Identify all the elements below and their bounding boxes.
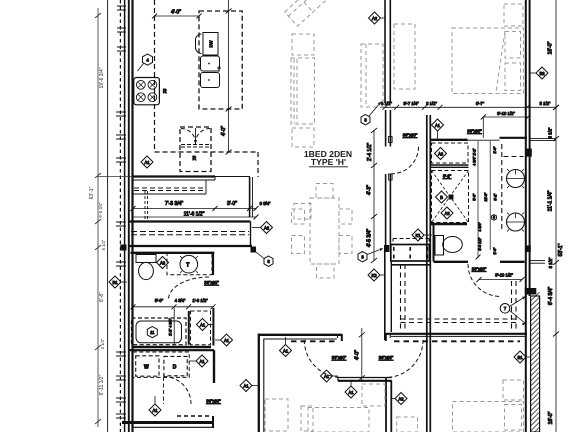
closet bottom wall: [391, 264, 430, 266]
svg-text:36"x60": 36"x60": [379, 355, 394, 360]
console bookcase: [291, 58, 315, 124]
cabinet dashed right edge: [257, 152, 259, 177]
LEFT DIMENSION STRING: [89, 8, 133, 427]
svg-text:A1: A1: [200, 322, 206, 327]
basin 1: [507, 170, 525, 188]
right door jamb: [385, 333, 387, 341]
hex 3 entry: [361, 115, 370, 125]
bed3 bed: [453, 402, 524, 432]
svg-text:16'-0": 16'-0": [548, 411, 554, 424]
ensuite toilet bowl: [443, 237, 463, 253]
svg-text:2'-2" 4 3/4": 2'-2" 4 3/4": [169, 318, 173, 336]
top dim row: [380, 106, 556, 108]
hex 4 kitchen: [143, 54, 153, 65]
svg-text:W: W: [144, 365, 149, 371]
small rects lower: [294, 204, 311, 220]
svg-text:3'-2": 3'-2": [443, 174, 452, 179]
laundry right wall: [213, 350, 215, 383]
svg-text:A1: A1: [144, 160, 150, 165]
svg-text:4'-0": 4'-0": [171, 10, 181, 16]
range (stove): [134, 78, 160, 105]
jamb block mid right wall: [525, 246, 531, 253]
bulkhead dashed L left: [400, 264, 402, 332]
CENTER WALLS / DOORS: [258, 128, 527, 432]
shower dashed box: [432, 171, 469, 223]
svg-text:A1: A1: [243, 383, 249, 388]
diamond B1 right lower: [514, 351, 526, 363]
bathtub dashed surround: [132, 318, 187, 345]
svg-text:4'-3": 4'-3": [367, 185, 373, 195]
svg-text:A1: A1: [283, 348, 289, 353]
island vertical dim line: [228, 0, 230, 152]
svg-text:6'-4 3/4": 6'-4 3/4": [548, 287, 554, 306]
dryer box: [164, 356, 187, 375]
bed2 nightstand: [504, 4, 523, 26]
diamond A3 powder: [157, 257, 169, 269]
RIGHT WALL + DIMS: [525, 0, 564, 432]
door jamb bumps: [389, 137, 393, 143]
circle 7: [500, 304, 510, 314]
svg-text:R: R: [163, 89, 167, 95]
dim line 2: [133, 216, 256, 218]
basin 2: [507, 213, 525, 231]
svg-text:36"x60": 36"x60": [204, 280, 219, 285]
svg-text:DW: DW: [209, 40, 214, 47]
svg-text:11'-6 1/2": 11'-6 1/2": [184, 212, 205, 218]
bed2 dresser: [394, 24, 415, 89]
dim line kitchen bottom: [133, 207, 256, 209]
svg-text:3 1/2": 3 1/2": [548, 257, 553, 268]
dining chairs: [292, 209, 305, 224]
wall inner thick line: [131, 0, 133, 432]
diamond B1 left: [109, 276, 121, 288]
linen cabinet box: [391, 245, 430, 262]
jamb black block: [384, 245, 390, 252]
TV console along entry wall: [361, 44, 383, 107]
armchair square: [292, 34, 314, 55]
left door jamb: [341, 334, 343, 341]
ensuite door arc dashed: [468, 264, 501, 297]
hall dim line vertical: [373, 216, 375, 261]
hex 5 marker: [492, 215, 497, 221]
wall face line (balcony edge): [107, 0, 109, 432]
svg-text:1'-6": 1'-6": [493, 146, 497, 154]
bathtub inner: [136, 321, 182, 343]
bed2 door arc: [392, 147, 419, 174]
diamond K2: [368, 269, 380, 281]
den2 desk: [308, 408, 369, 432]
svg-text:A1: A1: [224, 338, 230, 343]
dimension line: [97, 8, 99, 427]
svg-text:19'-6 3/4": 19'-6 3/4": [99, 67, 105, 88]
svg-text:A1: A1: [324, 374, 330, 379]
svg-text:A2: A2: [372, 16, 378, 21]
left door arc dashed: [304, 340, 341, 378]
svg-text:A1: A1: [348, 390, 354, 395]
diamond B shower: [436, 191, 448, 203]
closet top wall: [430, 139, 468, 141]
hall counter top edge: [128, 220, 251, 222]
ensuite top door dim: [483, 116, 528, 118]
svg-text:36"x60": 36"x60": [472, 266, 487, 271]
toilet bowl: [139, 262, 154, 279]
svg-text:3 1/2": 3 1/2": [548, 127, 553, 138]
ensuite interior dim lines: [477, 141, 479, 258]
svg-text:11: 11: [150, 330, 155, 335]
svg-text:T: T: [186, 263, 189, 269]
diamond A2 top entry: [369, 12, 381, 24]
hex 11 tub: [147, 327, 157, 338]
ensuite toilet tank: [435, 236, 444, 256]
counter front edge: [134, 193, 207, 195]
hex 8: [358, 252, 367, 262]
svg-text:K2: K2: [371, 273, 377, 278]
counter wall below kitchen: [134, 175, 216, 177]
svg-text:4'-0": 4'-0": [355, 350, 361, 360]
window mullion ticks: [116, 6, 126, 418]
svg-text:A1: A1: [199, 359, 205, 364]
toilet room left wall: [433, 224, 435, 262]
fridge double door arcs: [181, 129, 196, 144]
DW door front: [196, 34, 202, 54]
diamond A1 doors left: [321, 370, 333, 382]
svg-text:B: B: [440, 195, 443, 200]
entry wall column upper segment: [384, 0, 386, 103]
vanity dashed: [167, 254, 212, 275]
closet dashed: [432, 143, 469, 163]
diamond A2 bed3: [395, 393, 407, 405]
armchair left mid: [292, 128, 314, 147]
svg-text:36"x60": 36"x60": [206, 399, 221, 404]
BATH/LAUNDRY: [122, 308, 221, 428]
svg-text:B2: B2: [539, 71, 545, 76]
diamond A1 laundry: [196, 355, 208, 367]
closet wall column: [426, 115, 428, 432]
wall stub mid right: [530, 260, 545, 262]
hall left wall upper: [384, 252, 386, 340]
diamond A1 closet top: [432, 119, 444, 131]
diamond A1 den1 top: [280, 345, 292, 357]
sofa rotated top left: [285, 0, 344, 26]
bulkhead dashed vertical right: [511, 281, 513, 331]
svg-text:8'-2": 8'-2": [494, 193, 498, 201]
bath2 right wall: [212, 308, 214, 346]
connector at counter level: [98, 176, 133, 178]
svg-text:4'-0": 4'-0": [221, 126, 227, 136]
FURNITURE (light gray): [265, 0, 524, 432]
diamond B2 right: [536, 67, 548, 79]
svg-text:8'-7": 8'-7": [476, 101, 485, 106]
wall dashes under: [291, 340, 337, 342]
diamond A1 kitchen left: [141, 156, 153, 168]
svg-text:K1: K1: [415, 233, 421, 238]
upper cabinets dashed line vertical: [154, 0, 156, 152]
entry dim line vertical upper: [373, 130, 375, 216]
faucet: [217, 66, 221, 72]
bulkhead dashed horizontal: [401, 318, 517, 320]
main right wall double line: [525, 0, 527, 432]
svg-text:3'-0": 3'-0": [227, 201, 237, 207]
diamond K1: [412, 229, 424, 241]
svg-text:5 1/2": 5 1/2": [540, 101, 551, 106]
RIGHT BLOCK (bedroom2/ensuite): [380, 0, 559, 432]
svg-text:11'-1 1/4": 11'-1 1/4": [548, 190, 554, 211]
diamond A1 den2: [345, 386, 357, 398]
svg-text:6'-11 1/2": 6'-11 1/2": [99, 374, 105, 395]
pantry right vertical: [249, 177, 251, 217]
svg-text:B1: B1: [517, 355, 523, 360]
svg-text:A3: A3: [444, 211, 450, 216]
svg-text:3'-10 1/2": 3'-10 1/2": [495, 273, 513, 278]
svg-text:3 1/2": 3 1/2": [100, 338, 105, 349]
svg-text:5 1/2": 5 1/2": [101, 239, 106, 250]
svg-text:3'-0 1/2": 3'-0 1/2": [478, 237, 482, 251]
door dim line: [479, 279, 522, 281]
right door arc dashed: [386, 340, 423, 378]
svg-text:B1: B1: [112, 280, 118, 285]
svg-text:63'-1": 63'-1": [89, 186, 95, 199]
diamond A1 shower niche: [197, 319, 209, 331]
powder right wall: [212, 253, 214, 275]
dim 4'-0" horizontal: [155, 15, 200, 17]
svg-text:A3: A3: [160, 260, 166, 265]
svg-text:4 3/4": 4 3/4": [478, 222, 482, 232]
diamond A1 bath right: [221, 334, 233, 346]
diamond A3 closet: [435, 148, 447, 160]
svg-text:TYPE 'H': TYPE 'H': [311, 157, 346, 167]
bath2 mid wall: [188, 311, 190, 345]
den2 desk chair: [362, 384, 385, 406]
hall counter bottom edge: [128, 245, 252, 247]
TITLE: [304, 149, 352, 167]
den1 desk: [265, 399, 288, 431]
bed2 door wall lower: [385, 174, 387, 245]
hex 6: [264, 256, 273, 266]
wall stub right of ensuite top wall: [530, 138, 556, 140]
dishwasher DW: [203, 33, 218, 56]
svg-text:A1: A1: [152, 408, 158, 413]
den2 right wall: [385, 378, 387, 432]
shower bottom wall: [430, 223, 467, 225]
bath2 bottom wall: [132, 346, 212, 348]
svg-text:A2: A2: [398, 396, 404, 401]
svg-text:11'-0": 11'-0": [484, 192, 488, 202]
svg-text:1'-9 1/2": 1'-9 1/2": [192, 298, 208, 303]
svg-text:4'-5 3/4": 4'-5 3/4": [367, 229, 373, 248]
svg-text:4 3/4" 2'-2": 4 3/4" 2'-2": [473, 148, 477, 166]
diamond A1 laundry door: [149, 404, 161, 416]
hall counter right edge: [250, 222, 252, 247]
den1/den2 top wall: [258, 334, 342, 336]
den1 left wall: [258, 334, 260, 432]
ensuite door wall right part: [500, 261, 525, 263]
shower niche dashed: [191, 311, 211, 345]
svg-text:36"x60": 36"x60": [467, 129, 482, 134]
svg-text:2'-4 1/2": 2'-4 1/2": [367, 143, 373, 162]
wall stud dashes between thick lines: [119, 0, 121, 432]
svg-text:3'-10 1/2": 3'-10 1/2": [497, 111, 515, 116]
laundry door arc dashed: [164, 377, 192, 405]
svg-text:53'-1": 53'-1": [558, 243, 564, 256]
wall outer thick line: [128, 0, 130, 432]
svg-text:9 3/4": 9 3/4": [260, 201, 271, 206]
refrigerator dashed box: [180, 127, 211, 172]
LEFT EXTERIOR WALL ASSEMBLY: [108, 0, 133, 432]
svg-text:5'-0": 5'-0": [155, 298, 164, 303]
lower counter dashed: [134, 187, 206, 189]
island dashed outline: [199, 11, 242, 109]
right wall segment of door wall: [386, 333, 527, 335]
dashed stub below counter: [144, 191, 146, 221]
svg-text:R: R: [193, 156, 197, 162]
diamond A2 counter: [261, 222, 273, 234]
dining table: [310, 198, 339, 264]
svg-text:A3: A3: [438, 151, 444, 156]
basin scalloped: [180, 255, 198, 273]
svg-text:3 1/2": 3 1/2": [426, 101, 437, 106]
bed2 bed: [452, 28, 524, 94]
den2 top wall (lower): [338, 377, 392, 379]
hatched exterior wall lower right: [531, 292, 540, 432]
center dim line vertical: [361, 328, 363, 381]
washer box: [136, 356, 159, 376]
svg-text:A1: A1: [435, 123, 441, 128]
laundry top wall: [128, 349, 214, 351]
svg-text:8'-8": 8'-8": [99, 292, 105, 302]
HALL COUNTER + POWDER ROOM: [120, 222, 256, 310]
svg-text:5'-0": 5'-0": [473, 193, 477, 201]
closet dashed rod: [393, 238, 429, 240]
powder top wall: [131, 252, 215, 254]
wall junction block: [120, 245, 126, 251]
bottom wall right return: [212, 416, 214, 428]
svg-text:7'-8 3/4": 7'-8 3/4": [165, 201, 184, 207]
powder door arc dashed: [169, 277, 210, 299]
bed2 door wall upper: [385, 110, 387, 147]
svg-text:A2: A2: [264, 225, 270, 230]
KITCHEN: [131, 0, 271, 221]
vanity dashed front: [501, 144, 503, 230]
upper cabinets dashed line horizontal: [155, 151, 259, 153]
MARKERS: [109, 12, 548, 416]
svg-text:6'-5 3/4": 6'-5 3/4": [98, 202, 103, 218]
svg-text:1'-6": 1'-6": [493, 247, 497, 255]
door jamb block: [251, 247, 257, 253]
svg-text:3'-7 1/4": 3'-7 1/4": [403, 101, 419, 106]
right dimension line: [555, 0, 557, 432]
wall stud line: [124, 0, 126, 432]
wall corner cap: [525, 288, 537, 295]
toilet room bottom wall: [434, 261, 469, 263]
bed3 nightstand: [503, 380, 524, 400]
ensuite top wall: [500, 137, 528, 139]
bath2 dim line: [133, 306, 214, 308]
svg-text:D: D: [173, 365, 177, 371]
svg-text:36"x60": 36"x60": [332, 355, 347, 360]
svg-text:16'-0": 16'-0": [548, 41, 554, 54]
sink double bowl: [201, 56, 220, 71]
svg-text:36"x60": 36"x60": [403, 133, 418, 138]
bed2 pillows: [505, 32, 521, 59]
vanity dashed counter: [504, 156, 524, 158]
closet bottom double wall: [430, 164, 469, 166]
diamond A1 den1: [240, 380, 252, 392]
toilet tank: [136, 255, 156, 263]
jamb black block: [526, 149, 532, 157]
svg-text:4 3/4": 4 3/4": [175, 298, 186, 303]
bottom wall thick: [122, 421, 214, 424]
ticks: [95, 13, 101, 424]
diamond A3 shower: [441, 207, 453, 219]
bed3 pillow: [505, 405, 522, 431]
hall counter dashed shelves: [131, 231, 249, 233]
svg-text:5: 5: [493, 216, 495, 220]
dashed threshold: [177, 415, 209, 417]
tub dim line vertical: [173, 308, 175, 345]
W/D dashed surround: [133, 352, 189, 377]
